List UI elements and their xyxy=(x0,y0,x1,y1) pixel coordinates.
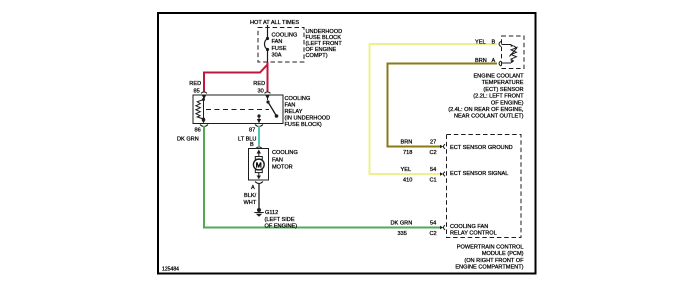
svg-text:RED: RED xyxy=(253,81,265,87)
wire BLK/WHT motor to ground xyxy=(258,183,260,208)
svg-text:C1: C1 xyxy=(430,178,437,184)
connector at PCM pin 27 C2 xyxy=(440,144,445,149)
svg-text:410: 410 xyxy=(403,178,412,184)
relay label COOLING FAN RELAY (IN UNDERHOOD FUSE BLOCK) xyxy=(285,96,331,128)
relay coil bottom arrow to pin 86 xyxy=(201,120,205,124)
svg-text:M: M xyxy=(256,160,262,169)
wire LT BLU from relay 87 to motor pin B xyxy=(258,126,260,146)
underhood fuse block label xyxy=(306,29,343,59)
svg-text:(2.4L: ON REAR OF ENGINE,: (2.4L: ON REAR OF ENGINE, xyxy=(448,107,524,113)
wire RED branch to relay pin 85 xyxy=(204,65,268,92)
wire BRN from ECT A to PCM 27/C2 xyxy=(388,64,498,147)
ECT sensor label xyxy=(448,74,524,120)
motor symbol xyxy=(253,150,264,180)
svg-text:B: B xyxy=(250,142,254,148)
svg-text:BRN: BRN xyxy=(401,140,413,146)
svg-text:POWERTRAIN CONTROL: POWERTRAIN CONTROL xyxy=(457,245,524,251)
motor label COOLING FAN MOTOR xyxy=(272,150,298,171)
svg-text:BLK/: BLK/ xyxy=(244,193,257,199)
svg-text:TEMPERATURE: TEMPERATURE xyxy=(482,80,524,86)
svg-text:DK GRN: DK GRN xyxy=(391,221,413,227)
connector at ECT pin A xyxy=(499,61,501,66)
svg-text:FUSE BLOCK): FUSE BLOCK) xyxy=(285,122,322,128)
svg-text:MOTOR: MOTOR xyxy=(272,165,293,171)
svg-text:A: A xyxy=(492,58,496,64)
svg-text:WHT: WHT xyxy=(244,200,257,206)
wire label BRN 27 / 718 C2 xyxy=(401,140,437,157)
svg-text:OF ENGINE): OF ENGINE) xyxy=(491,100,524,106)
connector at PCM pin 54 C2 xyxy=(440,225,445,230)
wire color label BLK/WHT xyxy=(244,193,257,206)
ground label G112 (LEFT SIDE OF ENGINE) xyxy=(265,210,298,230)
svg-text:HOT AT ALL TIMES: HOT AT ALL TIMES xyxy=(250,20,299,26)
wire YEL from ECT B to PCM 54/C1 xyxy=(370,44,498,174)
wire DK GRN from relay 86 to PCM xyxy=(204,126,442,228)
svg-text:86: 86 xyxy=(195,128,201,134)
svg-text:DK GRN: DK GRN xyxy=(177,137,199,143)
svg-text:125484: 125484 xyxy=(162,267,179,273)
connector at relay pin 30 xyxy=(265,92,271,100)
svg-text:30A: 30A xyxy=(272,53,282,59)
svg-text:YEL: YEL xyxy=(475,40,486,46)
PCM label POWERTRAIN CONTROL MODULE xyxy=(455,245,524,271)
svg-text:FAN: FAN xyxy=(272,39,283,45)
svg-text:B: B xyxy=(492,40,496,46)
svg-text:FAN: FAN xyxy=(272,157,283,163)
connector at PCM pin 54 C1 xyxy=(440,172,445,177)
motor M: COOLING FAN MOTOR box xyxy=(249,149,269,181)
connector at ECT pin B xyxy=(499,41,501,46)
svg-text:85: 85 xyxy=(194,89,200,95)
ground G112 xyxy=(254,208,263,217)
connector at motor pin B xyxy=(256,147,262,149)
svg-text:RELAY: RELAY xyxy=(285,109,303,115)
svg-text:54: 54 xyxy=(430,167,436,173)
svg-text:ENGINE COMPARTMENT): ENGINE COMPARTMENT) xyxy=(455,265,523,271)
svg-text:COOLING FAN: COOLING FAN xyxy=(450,224,488,230)
svg-text:718: 718 xyxy=(403,150,412,156)
svg-text:YEL: YEL xyxy=(401,167,412,173)
PCM dashed box xyxy=(447,135,522,238)
connector at motor pin A xyxy=(255,182,263,184)
relay K: COOLING FAN RELAY box xyxy=(193,95,283,124)
svg-text:COOLING: COOLING xyxy=(285,96,311,102)
svg-text:FAN: FAN xyxy=(285,103,296,109)
fuse value label COOLING FAN FUSE 30A xyxy=(272,33,298,59)
ECT thermistor symbol xyxy=(502,44,518,63)
relay switch contacts 30-87 xyxy=(257,95,279,123)
svg-text:(LEFT SIDE: (LEFT SIDE xyxy=(265,217,295,223)
wire RED from fuse down to relay pin 30 xyxy=(267,62,269,92)
svg-text:RED: RED xyxy=(189,81,201,87)
svg-text:OF ENGINE): OF ENGINE) xyxy=(265,224,298,230)
svg-text:C2: C2 xyxy=(430,150,437,156)
wire from HOT AT ALL TIMES into fuse xyxy=(267,25,269,39)
svg-text:(2.2L: LEFT FRONT: (2.2L: LEFT FRONT xyxy=(473,94,524,100)
svg-text:335: 335 xyxy=(398,231,407,237)
svg-text:MODULE (PCM): MODULE (PCM) xyxy=(482,251,524,257)
svg-text:COOLING: COOLING xyxy=(272,150,298,156)
svg-text:FUSE: FUSE xyxy=(272,46,287,52)
svg-text:COOLING: COOLING xyxy=(272,33,298,39)
wire label DK GRN 54 / 335 C2 xyxy=(391,221,437,238)
svg-text:54: 54 xyxy=(430,221,436,227)
connector at relay pin 86 xyxy=(200,125,208,127)
svg-text:RELAY CONTROL: RELAY CONTROL xyxy=(450,231,497,237)
underhood fuse block (dashed box) xyxy=(258,28,304,63)
svg-text:A: A xyxy=(251,185,255,191)
relay coil xyxy=(196,97,205,122)
svg-text:ECT SENSOR SIGNAL: ECT SENSOR SIGNAL xyxy=(450,171,508,177)
svg-text:87: 87 xyxy=(249,128,255,134)
svg-text:(ON RIGHT FRONT OF: (ON RIGHT FRONT OF xyxy=(464,258,524,264)
svg-text:(IN UNDERHOOD: (IN UNDERHOOD xyxy=(285,116,331,122)
relay internal dashed link coil to switch xyxy=(206,109,269,111)
fuse F: COOLING FAN FUSE 30A xyxy=(265,37,270,62)
svg-text:ECT SENSOR GROUND: ECT SENSOR GROUND xyxy=(450,145,513,151)
ECT sensor dashed box xyxy=(502,36,525,69)
svg-text:30: 30 xyxy=(258,89,264,95)
svg-text:NEAR COOLANT OUTLET): NEAR COOLANT OUTLET) xyxy=(454,114,524,120)
connector at relay pin 85 xyxy=(201,92,207,100)
PCM pin label COOLING FAN RELAY CONTROL xyxy=(450,224,497,237)
svg-text:27: 27 xyxy=(430,140,436,146)
svg-text:(ECT) SENSOR: (ECT) SENSOR xyxy=(483,87,523,93)
svg-text:COMPT): COMPT) xyxy=(306,53,328,59)
connector at relay pin 87 xyxy=(255,125,263,127)
svg-text:BRN: BRN xyxy=(475,58,487,64)
svg-text:C2: C2 xyxy=(430,231,437,237)
wire label YEL 54 / 410 C1 xyxy=(401,167,437,184)
diagram outer border frame xyxy=(158,13,536,274)
svg-text:G112: G112 xyxy=(265,210,278,216)
svg-text:ENGINE COOLANT: ENGINE COOLANT xyxy=(473,74,524,80)
